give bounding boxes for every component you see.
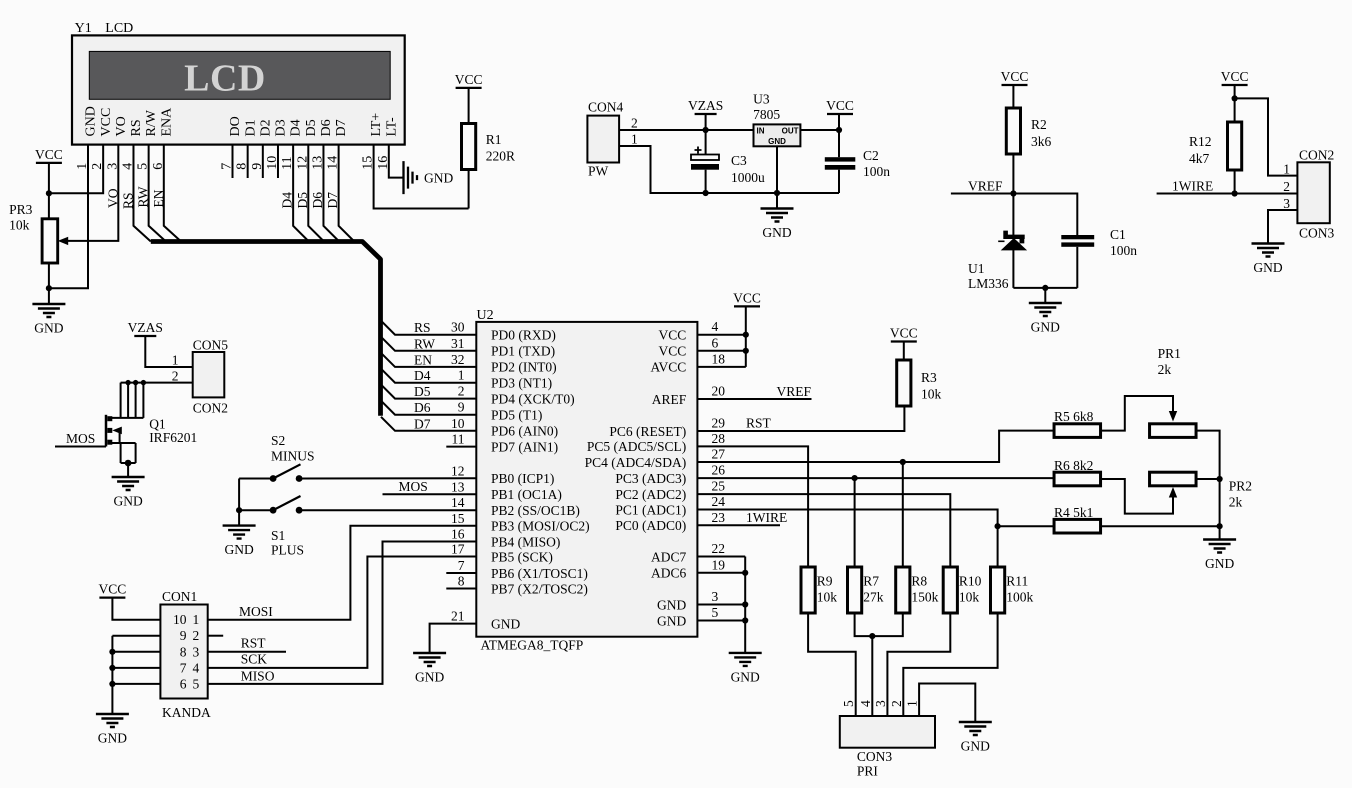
svg-text:10k: 10k bbox=[817, 590, 838, 605]
node R12/1WIRE junction bbox=[1232, 190, 1238, 196]
switch S1 PLUS bbox=[270, 507, 277, 514]
svg-text:18: 18 bbox=[712, 351, 726, 366]
wire VZAS node to U3 IN bbox=[706, 129, 754, 131]
wire CON1 ground pins 9 8 7 6 bbox=[112, 635, 160, 637]
wire R9 to CON3 pin 5 bbox=[808, 613, 856, 716]
svg-text:27k: 27k bbox=[863, 590, 884, 605]
wire S2 to U2 pin 12 PB0 bbox=[299, 477, 476, 479]
svg-text:VO: VO bbox=[105, 188, 120, 208]
svg-text:7805: 7805 bbox=[753, 107, 780, 122]
wire R6 to PR2 wiper bbox=[1101, 479, 1174, 514]
svg-text:C2: C2 bbox=[863, 148, 879, 163]
svg-text:3: 3 bbox=[712, 589, 719, 604]
LCD pin 16 wire to GND bbox=[389, 145, 404, 178]
resistor R8 bbox=[896, 567, 910, 613]
node pin 5 junction bbox=[742, 617, 748, 623]
svg-text:PB1 (OC1A): PB1 (OC1A) bbox=[491, 487, 562, 502]
wire R5 to PR1 wiper bbox=[1101, 396, 1174, 431]
svg-text:PD3 (NT1): PD3 (NT1) bbox=[491, 376, 552, 391]
svg-text:2k: 2k bbox=[1229, 495, 1243, 510]
svg-text:8: 8 bbox=[180, 644, 187, 659]
ground at LCD pin 16 (rotated) bbox=[404, 161, 418, 194]
svg-text:3: 3 bbox=[193, 644, 200, 659]
svg-text:PC3 (ADC3): PC3 (ADC3) bbox=[615, 471, 686, 486]
svg-text:VZAS: VZAS bbox=[688, 98, 723, 113]
wire bus to U2 pin 2 (D5) bbox=[381, 385, 476, 399]
svg-text:PW: PW bbox=[588, 164, 609, 179]
node VCC pin4 junction bbox=[743, 332, 749, 338]
resistor R3 bbox=[897, 360, 911, 406]
wire VCC to R3 bbox=[903, 342, 905, 361]
wire R12 to 1WIRE net bbox=[1234, 170, 1236, 194]
svg-text:D5: D5 bbox=[414, 384, 431, 399]
svg-text:CON4: CON4 bbox=[588, 100, 624, 115]
wire U2 pin 25 PC2 to R10 bbox=[697, 494, 950, 567]
wire R7 top bbox=[854, 478, 856, 567]
node U3 ground junction bbox=[774, 190, 780, 196]
node C3 ground junction bbox=[703, 190, 709, 196]
regulator U3 7805 body bbox=[754, 124, 801, 146]
transistor Q1 drain leads bbox=[120, 383, 122, 418]
svg-text:OUT: OUT bbox=[782, 126, 799, 135]
svg-text:24: 24 bbox=[712, 494, 726, 509]
wire CON1 pin 1 MOSI to U2 pin 15 bbox=[208, 526, 477, 620]
wire to ground at U1 bbox=[1044, 288, 1046, 303]
svg-text:23: 23 bbox=[712, 510, 726, 525]
svg-text:6: 6 bbox=[180, 676, 187, 691]
LCD display window bbox=[89, 51, 390, 99]
svg-text:PD1 (TXD): PD1 (TXD) bbox=[491, 344, 555, 359]
wire PR3 bottom node to ground bbox=[48, 288, 50, 304]
wire VCC to R2 bbox=[1012, 85, 1014, 108]
svg-text:R/W: R/W bbox=[144, 109, 159, 136]
IC U2 ATMEGA8_TQFP body bbox=[476, 322, 697, 637]
svg-text:17: 17 bbox=[451, 542, 465, 557]
LCD pin 5 wire RW to bus bbox=[149, 145, 166, 242]
wire CON1 pin 4 SCK to U2 pin 17 bbox=[208, 557, 477, 668]
svg-text:PB2 (SS/OC1B): PB2 (SS/OC1B) bbox=[491, 503, 580, 518]
svg-text:PD4 (XCK/T0): PD4 (XCK/T0) bbox=[491, 391, 575, 406]
wire VCC to CON1 pin 10 bbox=[112, 598, 160, 620]
connector CON4 body bbox=[587, 116, 619, 163]
svg-text:MOSI: MOSI bbox=[239, 604, 273, 619]
svg-text:PD5 (T1): PD5 (T1) bbox=[491, 408, 542, 423]
wire net VREF bbox=[951, 193, 1014, 195]
svg-text:25: 25 bbox=[712, 479, 726, 494]
svg-text:ADC6: ADC6 bbox=[651, 566, 687, 581]
svg-text:R1: R1 bbox=[486, 132, 502, 147]
svg-text:MINUS: MINUS bbox=[271, 449, 315, 464]
svg-text:R12: R12 bbox=[1189, 134, 1212, 149]
wire U2 pin 27 PC4 to R5 bbox=[697, 431, 1054, 462]
svg-text:100k: 100k bbox=[1006, 590, 1033, 605]
svg-text:ATMEGA8_TQFP: ATMEGA8_TQFP bbox=[481, 638, 584, 653]
svg-text:VCC: VCC bbox=[1001, 69, 1029, 84]
wire U1/C1 ground rail bbox=[1013, 287, 1077, 289]
wire U2 pin 24 PC1 to R4/R11 node bbox=[697, 510, 997, 527]
svg-text:20: 20 bbox=[712, 384, 726, 399]
wire bus to U2 pin 31 (RW) bbox=[381, 337, 476, 351]
svg-text:GND: GND bbox=[657, 597, 686, 612]
svg-text:IRF6201: IRF6201 bbox=[149, 430, 197, 445]
wire right rail down bbox=[1219, 479, 1221, 526]
wire VCC node to R12 bbox=[1234, 98, 1236, 122]
ground at CON2 bbox=[1252, 244, 1285, 257]
svg-text:MOS: MOS bbox=[399, 479, 428, 494]
wire R11 to CON3 pin 2 bbox=[903, 613, 997, 716]
svg-text:10: 10 bbox=[173, 612, 187, 627]
svg-text:D7: D7 bbox=[334, 119, 349, 136]
svg-text:D7: D7 bbox=[414, 416, 431, 431]
wire VCC to node bbox=[48, 163, 50, 193]
svg-text:PB3 (MOSI/OC2): PB3 (MOSI/OC2) bbox=[491, 519, 590, 534]
svg-text:5: 5 bbox=[193, 676, 200, 691]
svg-text:GND: GND bbox=[1205, 556, 1234, 571]
svg-text:CON1: CON1 bbox=[162, 589, 197, 604]
node CON1 pin 7 junction bbox=[109, 665, 115, 671]
svg-text:PC2 (ADC2): PC2 (ADC2) bbox=[615, 487, 686, 502]
wire R4 right lead bbox=[1101, 525, 1220, 527]
wire bus to U2 pin 30 (RS) bbox=[381, 321, 476, 335]
svg-text:PB7 (X2/TOSC2): PB7 (X2/TOSC2) bbox=[491, 581, 588, 596]
svg-text:VREF: VREF bbox=[776, 384, 811, 399]
wire U2 pin 21 GND bbox=[430, 624, 477, 653]
wire U3 GND to ground rail bbox=[776, 146, 778, 193]
node PR3 bottom junction bbox=[46, 285, 52, 291]
wire CON1 pin 3 net RST bbox=[208, 651, 286, 653]
svg-text:2: 2 bbox=[458, 384, 465, 399]
svg-text:4k7: 4k7 bbox=[1189, 151, 1210, 166]
svg-text:PR3: PR3 bbox=[9, 202, 33, 217]
ground at U2 pin 21 bbox=[413, 653, 446, 666]
svg-text:CON3: CON3 bbox=[857, 749, 893, 764]
svg-text:R8: R8 bbox=[911, 574, 927, 589]
svg-text:GND: GND bbox=[961, 739, 990, 754]
svg-text:MOS: MOS bbox=[66, 431, 95, 446]
PR2 wiper arrowhead bbox=[1169, 487, 1177, 498]
capacitor C3 plus sign bbox=[695, 147, 702, 154]
svg-text:PB4 (MISO): PB4 (MISO) bbox=[491, 534, 560, 549]
LCD pin 6 wire EN to bus bbox=[164, 145, 181, 242]
wire C1 to ground rail bbox=[1076, 247, 1078, 288]
svg-text:D4: D4 bbox=[280, 192, 295, 209]
svg-text:R5 6k8: R5 6k8 bbox=[1054, 409, 1094, 424]
svg-text:VZAS: VZAS bbox=[128, 320, 163, 335]
svg-text:GND: GND bbox=[224, 542, 253, 557]
wire C3 to ground rail bbox=[705, 170, 707, 193]
wire VCC to R1 bbox=[468, 88, 470, 124]
potentiometer PR2 body bbox=[1150, 472, 1197, 486]
svg-text:1: 1 bbox=[905, 700, 920, 707]
svg-text:11: 11 bbox=[452, 432, 465, 447]
svg-text:MISO: MISO bbox=[241, 669, 275, 684]
svg-text:10k: 10k bbox=[959, 590, 980, 605]
svg-text:GND: GND bbox=[98, 731, 127, 746]
svg-text:AREF: AREF bbox=[652, 392, 687, 407]
svg-text:LCD: LCD bbox=[105, 21, 133, 36]
wire VCC node to C2 bbox=[838, 130, 840, 157]
svg-text:PB0 (ICP1): PB0 (ICP1) bbox=[491, 471, 554, 486]
svg-text:14: 14 bbox=[451, 495, 465, 510]
wire R4 left lead bbox=[998, 525, 1054, 527]
svg-text:R7: R7 bbox=[863, 574, 879, 589]
svg-text:10k: 10k bbox=[921, 387, 942, 402]
svg-text:3: 3 bbox=[1283, 196, 1290, 211]
svg-text:32: 32 bbox=[451, 352, 465, 367]
wire VZAS to CON5 pin 1 bbox=[145, 336, 192, 367]
svg-text:GND: GND bbox=[113, 494, 142, 509]
resistor R12 bbox=[1228, 122, 1242, 170]
node Q1 drain junction b bbox=[133, 380, 138, 385]
node PC4/R8 junction bbox=[900, 459, 906, 465]
node PC3/R7 junction bbox=[852, 475, 858, 481]
wire node to PR3 top bbox=[48, 193, 50, 219]
ground at PR3 bbox=[32, 304, 65, 317]
svg-text:IN: IN bbox=[757, 126, 765, 135]
resistor R11 bbox=[991, 567, 1005, 613]
wire CON4 pin 2 to VZAS node bbox=[619, 129, 706, 131]
LCD pin 11 wire D4 to bus bbox=[293, 145, 309, 242]
ground at S1/S2 bbox=[223, 526, 256, 539]
wire C2 to ground rail bbox=[838, 170, 840, 193]
svg-text:PR2: PR2 bbox=[1229, 479, 1252, 494]
LCD pin 9 stub bbox=[262, 145, 264, 178]
switch S2 MINUS bbox=[270, 475, 277, 482]
svg-text:2: 2 bbox=[889, 700, 904, 707]
svg-text:RS: RS bbox=[129, 119, 144, 136]
svg-text:R11: R11 bbox=[1006, 574, 1028, 589]
svg-text:VCC: VCC bbox=[659, 344, 687, 359]
svg-text:VCC: VCC bbox=[659, 328, 687, 343]
svg-text:CON2: CON2 bbox=[193, 401, 228, 416]
wire VREF node to U1 bbox=[1012, 194, 1014, 236]
wire CON4 pin 1 to ground rail bbox=[619, 146, 839, 193]
svg-text:28: 28 bbox=[712, 431, 726, 446]
wire bus to U2 pin 32 (EN) bbox=[381, 353, 476, 367]
svg-text:R9: R9 bbox=[817, 574, 833, 589]
wire R10 to CON3 pin 3 bbox=[887, 613, 950, 716]
svg-text:PC0 (ADC0): PC0 (ADC0) bbox=[615, 518, 686, 533]
wire VZAS node to C3 bbox=[705, 130, 707, 155]
wire AREF net VREF bbox=[697, 398, 811, 400]
svg-text:RW: RW bbox=[414, 336, 435, 351]
svg-text:D3: D3 bbox=[274, 119, 289, 136]
node Q1 drain junction c bbox=[141, 380, 146, 385]
svg-text:CON2: CON2 bbox=[1299, 148, 1334, 163]
svg-text:GND: GND bbox=[657, 613, 686, 628]
svg-text:GND: GND bbox=[415, 670, 444, 685]
svg-text:CON3: CON3 bbox=[1299, 226, 1335, 241]
wire MOS net to Q1 gate bbox=[55, 446, 106, 448]
svg-text:PB6 (X1/TOSC1): PB6 (X1/TOSC1) bbox=[491, 566, 588, 581]
svg-text:VCC: VCC bbox=[733, 290, 761, 305]
svg-text:GND: GND bbox=[84, 106, 99, 136]
wire bus to U2 pin 1 (D4) bbox=[381, 369, 476, 383]
svg-text:VCC: VCC bbox=[1221, 69, 1249, 84]
svg-text:4: 4 bbox=[858, 700, 873, 707]
svg-text:C1: C1 bbox=[1110, 227, 1126, 242]
wire S1 to U2 pin 14 PB2 bbox=[299, 509, 476, 511]
svg-text:9: 9 bbox=[458, 400, 465, 415]
node VCC/C2 junction bbox=[836, 127, 842, 133]
wire PR1 to right rail bbox=[1196, 431, 1220, 479]
svg-text:U2: U2 bbox=[477, 308, 494, 323]
wire bus to U2 pin 10 (D7) bbox=[381, 417, 476, 431]
svg-text:10k: 10k bbox=[9, 218, 30, 233]
transistor Q1 source leads bbox=[111, 442, 136, 444]
svg-text:VCC: VCC bbox=[455, 72, 483, 87]
wire junction to ground bbox=[238, 510, 240, 525]
wire node to CON3 pin 4 bbox=[871, 636, 873, 716]
potentiometer PR1 body bbox=[1150, 424, 1197, 438]
LCD pin 8 stub bbox=[247, 145, 249, 178]
svg-text:100n: 100n bbox=[1110, 243, 1137, 258]
node pin 19 junction bbox=[742, 570, 748, 576]
ground at U1 bbox=[1029, 303, 1062, 316]
svg-text:D4: D4 bbox=[414, 368, 431, 383]
svg-text:1000u: 1000u bbox=[731, 170, 765, 185]
svg-text:U3: U3 bbox=[753, 92, 770, 107]
node U1 ground junction bbox=[1042, 285, 1048, 291]
svg-text:GND: GND bbox=[491, 616, 520, 631]
svg-text:C3: C3 bbox=[731, 153, 747, 168]
capacitor C3 1000u (electrolytic) bbox=[691, 155, 719, 161]
svg-text:AVCC: AVCC bbox=[651, 360, 687, 375]
wire net 1WIRE bbox=[1157, 193, 1298, 195]
wire S2/S1 common bbox=[238, 479, 240, 511]
svg-text:4: 4 bbox=[193, 660, 200, 675]
svg-text:1: 1 bbox=[458, 368, 465, 383]
svg-text:PB5 (SCK): PB5 (SCK) bbox=[491, 549, 553, 564]
svg-text:RW: RW bbox=[136, 186, 151, 207]
node VCC/PR3 top junction bbox=[46, 190, 52, 196]
svg-text:VCC: VCC bbox=[99, 108, 114, 137]
U2 pin 7 stub bbox=[446, 572, 476, 574]
svg-text:PD0 (RXD): PD0 (RXD) bbox=[491, 328, 556, 343]
svg-text:PR1: PR1 bbox=[1158, 346, 1181, 361]
potentiometer PR3 body bbox=[42, 219, 58, 263]
svg-text:4: 4 bbox=[712, 319, 719, 334]
svg-text:30: 30 bbox=[451, 320, 465, 335]
wire R7 to node bbox=[855, 613, 873, 636]
wire R1 bottom to LCD pin 15 net bbox=[468, 170, 470, 209]
svg-text:GND: GND bbox=[731, 669, 760, 684]
svg-text:PLUS: PLUS bbox=[271, 543, 304, 558]
svg-text:2: 2 bbox=[193, 628, 200, 643]
resistor R1 bbox=[462, 124, 476, 170]
ground at Q1 bbox=[112, 477, 145, 490]
svg-text:R2: R2 bbox=[1031, 117, 1047, 132]
wire CON1 pin 5 MISO to U2 pin 16 bbox=[208, 542, 477, 684]
svg-text:GND: GND bbox=[1253, 260, 1282, 275]
resistor R10 bbox=[943, 567, 957, 613]
svg-text:PC6 (RESET): PC6 (RESET) bbox=[609, 424, 686, 439]
node R7/R8 junction bbox=[869, 633, 875, 639]
resistor R9 bbox=[801, 567, 815, 613]
svg-text:100n: 100n bbox=[863, 164, 890, 179]
svg-text:2k: 2k bbox=[1158, 362, 1172, 377]
U2 pin 8 stub bbox=[446, 588, 476, 590]
resistor R2 bbox=[1006, 108, 1020, 154]
svg-text:D5: D5 bbox=[304, 119, 319, 136]
node R4/rail/ground junction bbox=[1217, 523, 1223, 529]
svg-text:LCD: LCD bbox=[184, 58, 266, 100]
wire CON5 pin 2 to Q1 drain bbox=[121, 382, 193, 384]
svg-text:SCK: SCK bbox=[241, 652, 268, 667]
transistor Q1 IRF6201 channel bbox=[105, 415, 108, 447]
svg-text:R6 8k2: R6 8k2 bbox=[1054, 458, 1093, 473]
LCD pin 15 wire to R1 bbox=[374, 145, 469, 209]
svg-text:12: 12 bbox=[451, 463, 465, 478]
svg-text:VO: VO bbox=[114, 116, 129, 136]
svg-text:R3: R3 bbox=[921, 370, 937, 385]
svg-text:31: 31 bbox=[451, 336, 465, 351]
svg-text:GND: GND bbox=[768, 137, 786, 146]
svg-text:VREF: VREF bbox=[968, 179, 1003, 194]
node pin 3 junction bbox=[742, 601, 748, 607]
svg-text:VCC: VCC bbox=[99, 582, 127, 597]
wire left to S2 bbox=[239, 478, 273, 480]
svg-text:D2: D2 bbox=[258, 119, 273, 136]
svg-text:13: 13 bbox=[451, 479, 465, 494]
svg-text:D7: D7 bbox=[325, 192, 340, 209]
wire VREF node to C1 bbox=[1013, 194, 1077, 236]
svg-text:R10: R10 bbox=[959, 574, 982, 589]
svg-text:150k: 150k bbox=[911, 590, 938, 605]
svg-text:1: 1 bbox=[172, 353, 179, 368]
svg-text:S2: S2 bbox=[271, 433, 285, 448]
LCD pin 12 wire D5 to bus bbox=[308, 145, 324, 242]
svg-text:D6: D6 bbox=[310, 192, 325, 209]
svg-text:D1: D1 bbox=[243, 119, 258, 136]
PR3 wiper arrowhead bbox=[58, 237, 68, 245]
svg-text:GND: GND bbox=[424, 170, 453, 185]
svg-text:6: 6 bbox=[712, 335, 719, 350]
svg-text:PD6 (AIN0): PD6 (AIN0) bbox=[491, 424, 558, 439]
ground at CON3 bbox=[959, 722, 992, 735]
node Q1 source junction bbox=[125, 460, 132, 467]
connector CON1 body bbox=[160, 605, 207, 699]
svg-text:U1: U1 bbox=[968, 261, 985, 276]
connector CON3 PRI body bbox=[840, 716, 935, 748]
svg-text:D4: D4 bbox=[289, 119, 304, 136]
wire R8 top bbox=[902, 462, 904, 567]
svg-text:KANDA: KANDA bbox=[162, 705, 211, 720]
node CON1 pin 6 junction bbox=[109, 681, 115, 687]
U2 pin 11 stub bbox=[446, 446, 476, 448]
connector CON5 body bbox=[193, 352, 225, 397]
svg-text:PD2 (INT0): PD2 (INT0) bbox=[491, 360, 557, 375]
node Q1 drain junction a bbox=[125, 380, 130, 385]
wire U2 pin 26 PC3 to R6 bbox=[697, 477, 1054, 479]
svg-text:1: 1 bbox=[193, 612, 200, 627]
wire U2 pin 29 RST to R3 bbox=[697, 407, 904, 432]
svg-text:CON5: CON5 bbox=[193, 338, 229, 353]
wire CON2 pin 3 to ground bbox=[1268, 210, 1297, 244]
svg-text:LT+: LT+ bbox=[369, 113, 384, 137]
ground at U2 ADC pins bbox=[729, 653, 762, 666]
svg-text:PRI: PRI bbox=[857, 764, 879, 779]
connector CON2 body bbox=[1297, 162, 1329, 223]
node VCC/R12 junction bbox=[1232, 95, 1238, 101]
svg-text:22: 22 bbox=[712, 541, 726, 556]
svg-text:2: 2 bbox=[631, 116, 638, 131]
LCD pin 7 stub bbox=[232, 145, 234, 178]
svg-text:EN: EN bbox=[414, 352, 432, 367]
svg-text:D6: D6 bbox=[414, 400, 431, 415]
svg-text:19: 19 bbox=[712, 557, 726, 572]
node VCC pin6 junction bbox=[743, 348, 749, 354]
